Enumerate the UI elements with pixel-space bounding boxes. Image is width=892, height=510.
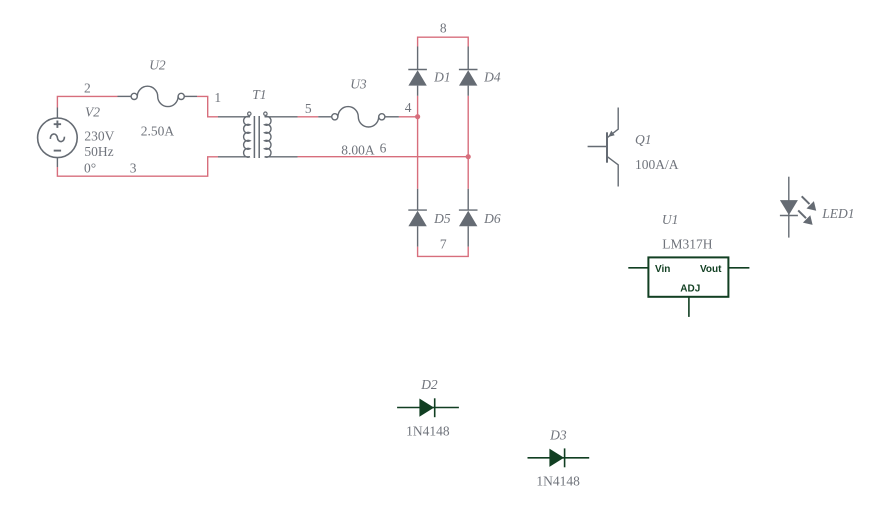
svg-text:U2: U2	[149, 57, 166, 72]
diode D3	[528, 457, 590, 459]
svg-text:2.50A: 2.50A	[141, 124, 175, 139]
svg-text:3: 3	[130, 160, 137, 175]
wire net 2 (V2 plus to fuse U2)	[57, 96, 117, 107]
svg-text:1N4148: 1N4148	[406, 424, 450, 439]
svg-text:0°: 0°	[84, 160, 96, 175]
fuse U3	[318, 107, 399, 127]
diode D1	[408, 47, 427, 96]
fuse U2	[118, 86, 198, 106]
svg-text:6: 6	[380, 141, 387, 156]
svg-text:Vin: Vin	[655, 264, 670, 275]
svg-text:D4: D4	[483, 70, 501, 85]
svg-text:230V: 230V	[84, 129, 114, 144]
junction node 4	[415, 114, 420, 119]
wire net 5 (transformer secondary top to fuse U3)	[298, 116, 319, 118]
svg-text:V2: V2	[85, 105, 100, 120]
regulator U1 LM317H	[648, 257, 728, 296]
V2 top terminal stub	[56, 108, 58, 119]
svg-text:ADJ: ADJ	[680, 283, 700, 294]
svg-text:5: 5	[305, 101, 312, 116]
diode D2	[397, 407, 459, 409]
svg-text:D1: D1	[433, 70, 451, 85]
svg-text:1: 1	[214, 90, 221, 105]
svg-text:4: 4	[405, 100, 412, 115]
svg-text:Q1: Q1	[635, 132, 652, 147]
svg-text:8.00A: 8.00A	[341, 143, 375, 158]
svg-text:Vout: Vout	[700, 264, 722, 275]
LED LED1	[780, 177, 810, 238]
transistor Q1	[588, 108, 619, 187]
svg-text:U3: U3	[350, 76, 367, 91]
diode D5	[408, 189, 427, 247]
svg-text:D2: D2	[420, 377, 438, 392]
wire net 1 (fuse U2 to transformer primary top)	[197, 96, 218, 116]
svg-text:50Hz: 50Hz	[84, 144, 113, 159]
diode D6	[459, 189, 478, 247]
svg-text:D5: D5	[433, 211, 451, 226]
svg-text:LM317H: LM317H	[662, 237, 713, 252]
wire net 4 (fuse U3 to bridge)	[399, 116, 418, 118]
svg-text:LED1: LED1	[821, 206, 854, 221]
svg-text:7: 7	[440, 237, 447, 252]
svg-text:T1: T1	[252, 87, 266, 102]
wire left bridge column (D1 anode to D5 cathode)	[417, 96, 419, 189]
wire net 6 (transformer secondary bottom, 8.00A)	[298, 156, 469, 158]
junction node 6	[466, 154, 471, 159]
V2 bottom terminal stub	[56, 158, 58, 167]
svg-text:100A/A: 100A/A	[635, 157, 679, 172]
wire net 8 top of bridge	[418, 37, 469, 46]
transformer T1	[218, 112, 298, 158]
wire net 7 bottom of bridge	[418, 247, 469, 257]
svg-text:D3: D3	[549, 428, 567, 443]
svg-text:1N4148: 1N4148	[536, 474, 580, 489]
svg-text:U1: U1	[662, 212, 679, 227]
svg-text:2: 2	[84, 80, 91, 95]
wire right bridge column (D4 anode to D6 cathode)	[467, 96, 469, 189]
svg-text:8: 8	[440, 21, 447, 36]
wire net 3 (V2 minus to transformer primary bottom)	[57, 157, 218, 176]
ac source V2 body	[38, 118, 78, 158]
svg-text:D6: D6	[483, 211, 501, 226]
diode D4	[459, 47, 478, 96]
